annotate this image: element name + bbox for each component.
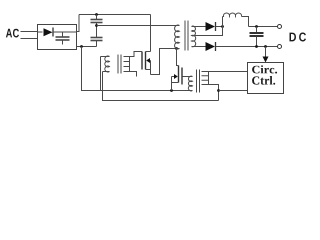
node junction dot output minus at cap — [255, 45, 258, 48]
wire T2 to control box — [209, 71, 248, 73]
transformer T1 core — [118, 55, 121, 74]
wire top rail — [79, 14, 151, 16]
node junction dot W1 at Q2 source — [170, 89, 173, 92]
wire T2 bottom to drive bus — [209, 85, 219, 101]
transformer T3 secondary winding — [192, 26, 196, 47]
diode D1 — [206, 22, 223, 31]
transformer T2 right winding — [202, 72, 209, 85]
wire W2 drive run — [103, 72, 219, 101]
capacitor C1 — [91, 15, 103, 38]
wire Q1 source to bridge midpoint — [151, 49, 180, 75]
node AC label — [6, 29, 19, 38]
node junction dot minus output — [80, 45, 83, 48]
wire common cathode riser — [222, 17, 224, 37]
transistor Q1 — [142, 52, 151, 75]
wire output plus rail — [249, 26, 278, 28]
wire AC top input — [21, 31, 38, 33]
wire center tap — [192, 35, 223, 37]
wire T1 top lead to W1 — [100, 57, 102, 91]
capacitor C2 — [91, 38, 103, 47]
wire rectifier minus output — [77, 46, 97, 48]
capacitor C3 — [250, 27, 264, 47]
transformer T3 core — [185, 21, 188, 51]
terminal output minus — [278, 45, 282, 49]
wire drive bus to control box — [219, 90, 248, 92]
rectifier box — [38, 25, 77, 50]
transformer T3 main primary winding — [175, 25, 180, 49]
wire T1 to Q1 gate — [130, 52, 143, 57]
transformer T1 right winding — [124, 57, 130, 72]
node junction dot D1 cathode — [221, 25, 224, 28]
diode D2 — [206, 42, 216, 51]
wire output minus rail — [216, 46, 278, 48]
wire secondary bottom to D2 — [192, 46, 206, 48]
wire midpoint to Q2 drain — [177, 49, 179, 66]
wire feedback to control box — [265, 47, 267, 57]
node junction dot drive bus — [217, 89, 220, 92]
node junction dot feedback tap — [264, 45, 267, 48]
transformer T2 left winding — [183, 76, 193, 91]
diode D0 inside rectifier — [38, 28, 77, 37]
transformer T2 core — [197, 70, 200, 93]
transistor Q2 — [172, 66, 183, 91]
inductor L1 — [223, 13, 249, 27]
wire capacitor midpoint to primary — [97, 25, 180, 27]
wire AC bottom input — [21, 38, 38, 40]
transformer T1 gate drive left winding — [101, 56, 110, 72]
node junction dot bridge midpoint — [175, 47, 178, 50]
wire T1 bottom stub — [130, 72, 137, 77]
wire secondary top to D1 — [192, 26, 206, 28]
terminal output plus — [278, 25, 282, 29]
node control box text — [252, 65, 277, 84]
node DC label — [290, 33, 307, 42]
wire rectifier plus output riser — [77, 15, 80, 32]
arrow feedback into control box — [263, 57, 269, 63]
wire W1 ground run — [82, 47, 193, 91]
control box Circ Ctrl — [248, 63, 284, 94]
node junction dot cap midpoint — [95, 24, 98, 27]
node junction dot top rail — [95, 13, 98, 16]
wire top rail drop to Q1 drain — [150, 15, 152, 52]
node junction dot output plus at cap — [255, 25, 258, 28]
capacitor C0 inside rectifier — [56, 32, 70, 45]
